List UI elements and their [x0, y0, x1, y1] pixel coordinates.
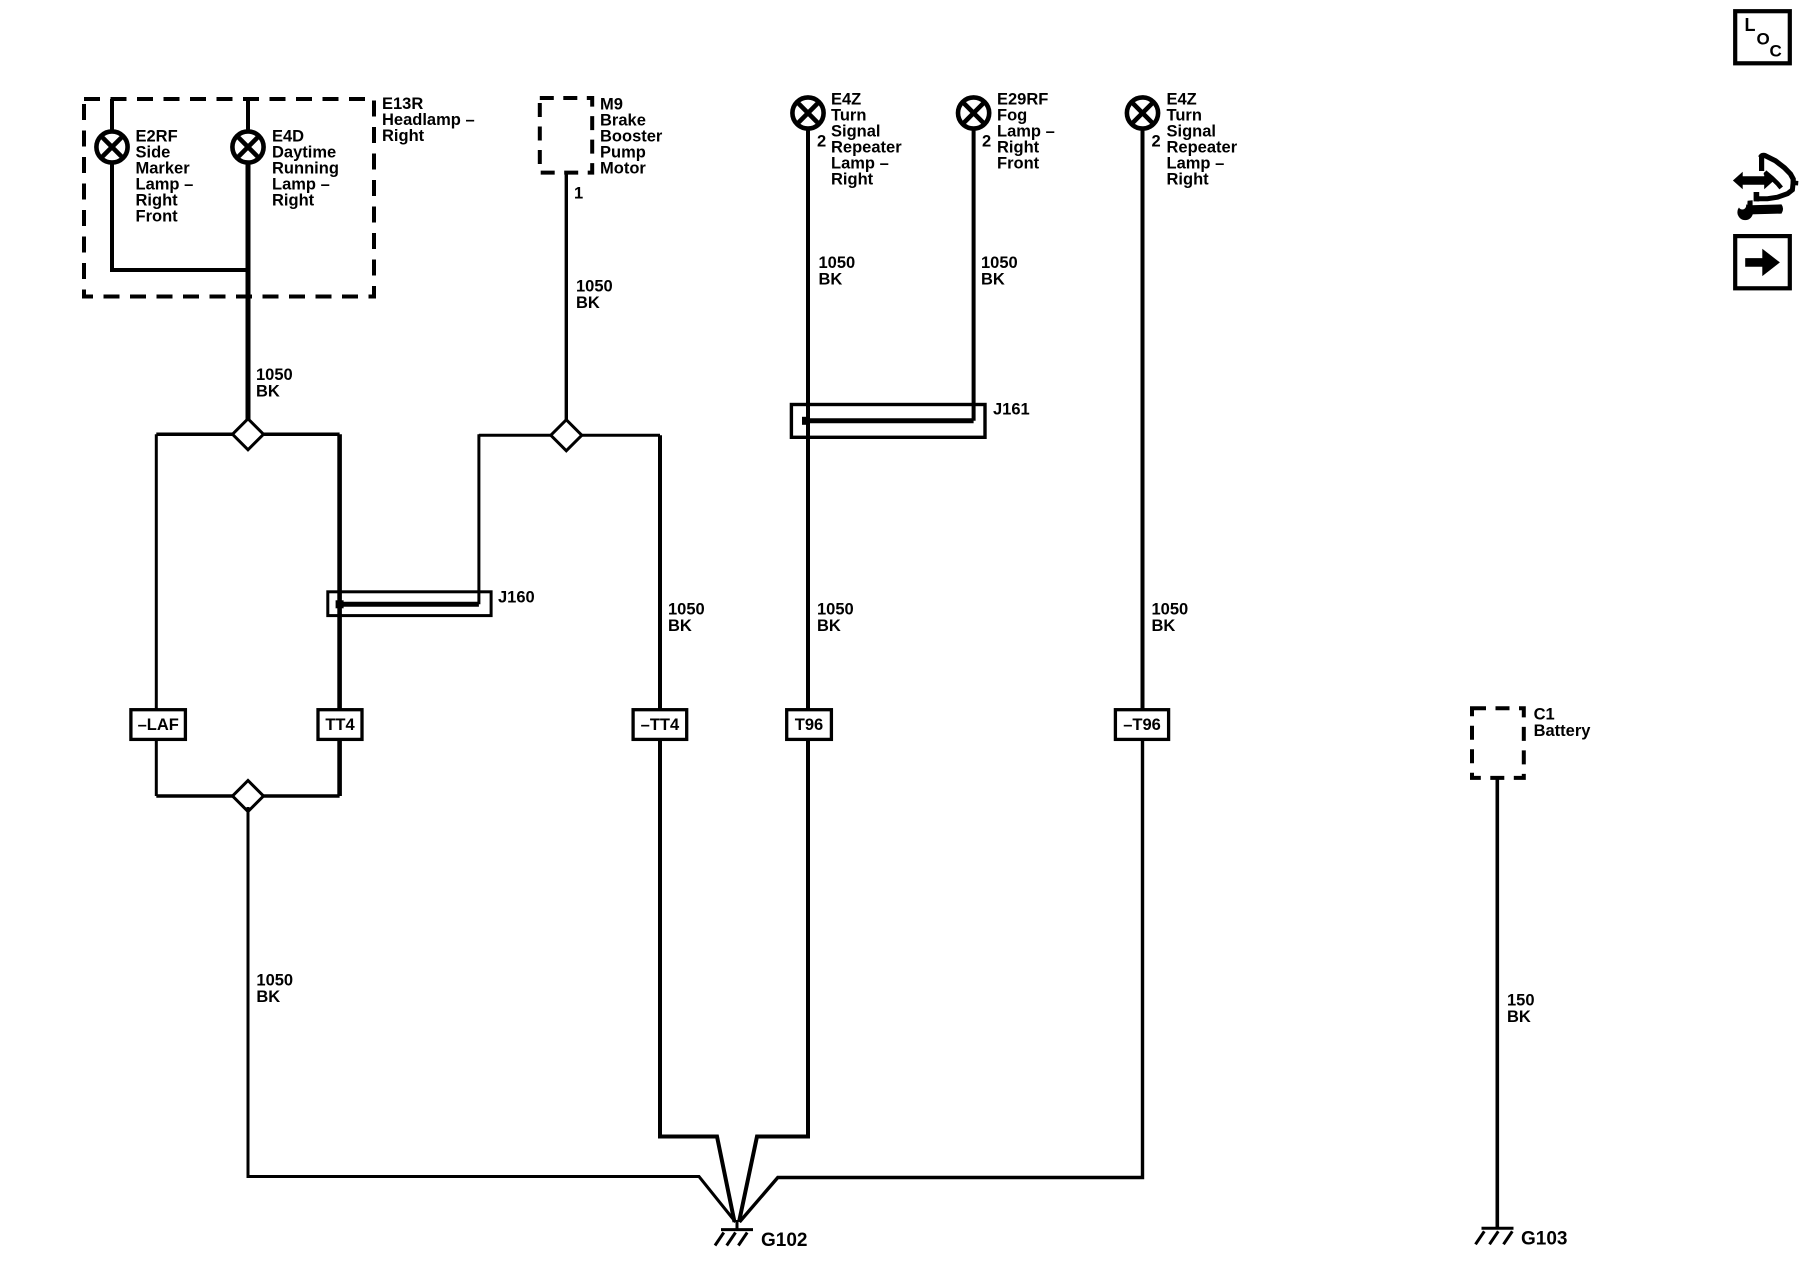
wire label 1050 BK (T96 wire) — [817, 600, 854, 635]
svg-text:Right: Right — [1167, 170, 1210, 188]
label E4D Daytime Running Lamp - Right — [272, 128, 339, 210]
wire TT4 to bottom loop corner — [337, 739, 342, 796]
svg-text:G103: G103 — [1521, 1228, 1567, 1249]
wire horizontal run of M9 diamond — [479, 434, 660, 437]
wire right branch of M9 diamond down to -TT4 — [658, 435, 662, 711]
wire horizontal run of upper-left diamond — [156, 433, 339, 437]
wire label 1050 BK (bottom left wire) — [256, 971, 293, 1006]
wire 1050 BK from E4D down to splice diamond — [246, 163, 251, 421]
svg-text:L: L — [1745, 15, 1756, 35]
label C1 Battery — [1534, 705, 1592, 740]
wire from D3 diamond left branch down to J160 bar — [477, 434, 480, 604]
label M9 Brake Booster Pump Motor — [600, 95, 663, 177]
svg-text:1050: 1050 — [576, 277, 613, 295]
label E4Z Turn Signal Repeater Lamp - Right (right) — [1167, 90, 1238, 188]
wire 1050 BK from E29RF pin 2 down to J161 bar — [972, 129, 976, 421]
svg-text:Right: Right — [382, 127, 425, 145]
splice bus bar inside J161 — [804, 418, 974, 423]
svg-text:1050: 1050 — [256, 971, 293, 989]
connector -LAF box — [131, 710, 186, 740]
label E2RF Side Marker Lamp - Right Front — [136, 128, 194, 226]
svg-text:–LAF: –LAF — [138, 716, 179, 734]
svg-text:2: 2 — [1152, 132, 1161, 150]
svg-text:1050: 1050 — [819, 254, 856, 272]
label E4Z Turn Signal Repeater Lamp - Right (left) — [831, 90, 902, 188]
svg-text:–TT4: –TT4 — [641, 716, 680, 734]
svg-text:TT4: TT4 — [325, 716, 355, 734]
svg-text:BK: BK — [256, 382, 280, 400]
wire bottom horizontal run of -LAF/TT4 loop — [156, 794, 339, 798]
svg-text:C1: C1 — [1534, 705, 1555, 723]
ground symbol G102 — [715, 1230, 753, 1246]
wire 150 BK from C1 Battery down to G103 — [1496, 778, 1500, 1228]
wire 1050 BK from E4Z pin 2 down through J161 to T96 — [806, 129, 810, 711]
svg-text:BK: BK — [981, 270, 1005, 288]
svg-text:1050: 1050 — [256, 366, 293, 384]
svg-text:1050: 1050 — [668, 600, 705, 618]
ground symbol G103 — [1476, 1228, 1514, 1244]
wire label 1050 BK (E29RF upper) — [981, 254, 1018, 289]
icon swap-parts with wrench (right margin) — [1733, 155, 1798, 220]
svg-text:Battery: Battery — [1534, 722, 1592, 740]
lamp E2RF Side Marker Lamp - Right Front — [96, 131, 127, 162]
svg-text:BK: BK — [256, 988, 280, 1006]
wire label 1050 BK (E4Z left upper) — [819, 254, 856, 289]
connector T96 box — [787, 710, 832, 740]
lamp E4Z Turn Signal Repeater Lamp - Right (right) — [1127, 97, 1158, 128]
lamp E4Z Turn Signal Repeater Lamp - Right (left) — [792, 97, 823, 128]
svg-text:BK: BK — [576, 294, 600, 312]
wire 1050 BK from bottom diamond down to ground bus — [248, 807, 736, 1222]
svg-text:Motor: Motor — [600, 159, 646, 177]
svg-text:2: 2 — [982, 132, 991, 150]
wire label 1050 BK (E4D wire) — [256, 366, 293, 401]
lamp E4D Daytime Running Lamp - Right — [232, 131, 263, 162]
wire -LAF to bottom loop corner — [155, 739, 158, 796]
node diamond at bottom of -LAF/TT4 loop — [233, 781, 264, 812]
icon forward arrow box (right margin) — [1735, 236, 1790, 288]
connector TT4 box — [318, 710, 362, 740]
wire left loop vertical to -LAF — [155, 434, 158, 711]
wire E2RF top stub — [110, 99, 114, 131]
wire from E2RF down and over to E4D branch — [112, 163, 248, 270]
svg-text:Front: Front — [997, 154, 1040, 172]
svg-text:1050: 1050 — [817, 600, 854, 618]
svg-text:C: C — [1770, 42, 1782, 61]
wire from T96 down into ground funnel — [739, 739, 808, 1222]
junction dot on J160 bar — [336, 600, 344, 608]
label E29RF Fog Lamp - Right Front — [997, 90, 1055, 172]
splice pack J161 box — [791, 405, 985, 438]
svg-text:BK: BK — [819, 270, 843, 288]
wire from -T96 down and left to ground funnel — [740, 739, 1143, 1222]
icon LOC legend box (top right) — [1735, 11, 1790, 63]
svg-text:J160: J160 — [498, 588, 535, 606]
svg-text:BK: BK — [668, 617, 692, 635]
ground lead stub G102 — [736, 1220, 739, 1229]
svg-text:2: 2 — [817, 132, 826, 150]
svg-text:Front: Front — [136, 208, 179, 226]
svg-text:Right: Right — [272, 192, 315, 210]
component box M9 Brake Booster Pump Motor (dashed) — [540, 98, 592, 173]
svg-text:O: O — [1757, 30, 1770, 49]
connector -T96 box — [1115, 710, 1168, 740]
svg-text:Right: Right — [831, 170, 874, 188]
junction dot on J161 bar — [802, 417, 810, 425]
component box C1 Battery (dashed) — [1472, 708, 1524, 778]
svg-text:1: 1 — [574, 184, 583, 202]
wire label 1050 BK (-TT4 wire) — [668, 600, 705, 635]
wire from -TT4 down into ground funnel — [660, 739, 735, 1222]
splice pack J160 box — [328, 592, 491, 616]
svg-text:150: 150 — [1507, 991, 1535, 1009]
wire right loop vertical to TT4 (through J160) — [337, 434, 342, 711]
label E13R Headlamp - Right — [382, 95, 475, 145]
svg-text:1050: 1050 — [1152, 600, 1189, 618]
svg-text:BK: BK — [1507, 1008, 1531, 1026]
wire E4D top stub — [246, 99, 250, 131]
svg-text:BK: BK — [817, 617, 841, 635]
wire label 1050 BK (M9 wire) — [576, 277, 613, 312]
svg-text:T96: T96 — [795, 716, 823, 734]
svg-text:–T96: –T96 — [1123, 716, 1161, 734]
svg-text:BK: BK — [1152, 617, 1176, 635]
wire 1050 BK from right E4Z pin 2 down to -T96 — [1141, 129, 1145, 711]
node diamond at top of -LAF/TT4 loop — [233, 419, 264, 450]
wire 1050 BK from M9 pin 1 down to diamond — [565, 173, 568, 422]
node diamond under M9 — [551, 420, 582, 451]
svg-text:G102: G102 — [761, 1230, 807, 1251]
splice bus bar inside J160 — [338, 602, 479, 607]
connector -TT4 box — [633, 710, 687, 740]
lamp E29RF Fog Lamp - Right Front — [958, 97, 989, 128]
svg-text:1050: 1050 — [981, 254, 1018, 272]
wire label 1050 BK (-T96 wire) — [1152, 600, 1189, 635]
wire label 150 BK (battery wire) — [1507, 991, 1535, 1026]
component box E13R Headlamp - Right (dashed) — [84, 99, 374, 297]
svg-text:J161: J161 — [993, 400, 1030, 418]
